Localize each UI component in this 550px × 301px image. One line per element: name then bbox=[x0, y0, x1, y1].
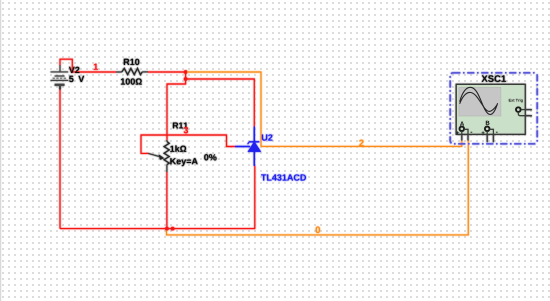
junction dot rail right bbox=[171, 227, 175, 231]
wire pot bottom to rail bbox=[166, 172, 168, 229]
wire V2 minus down to rail bbox=[59, 89, 61, 229]
battery value label 5 V bbox=[69, 76, 84, 82]
resistor R10 bbox=[116, 68, 148, 74]
shunt regulator U2 TL431 symbol bbox=[235, 127, 259, 167]
battery label V2 bbox=[69, 67, 80, 73]
oscilloscope body bbox=[456, 84, 525, 134]
oscilloscope terminal A bbox=[460, 127, 465, 132]
oscilloscope sine trace 1 bbox=[460, 87, 498, 114]
junction dot rail left bbox=[165, 227, 169, 231]
net label 0 bbox=[316, 226, 321, 233]
oscilloscope channel B label bbox=[486, 121, 490, 125]
oscilloscope A plus pin bbox=[461, 131, 463, 140]
wire pot wiper to U2 ref bbox=[141, 135, 236, 153]
potentiometer value label 1kohm bbox=[170, 145, 186, 152]
oscilloscope B plus mark bbox=[482, 131, 485, 134]
oscilloscope B plus pin bbox=[486, 131, 488, 142]
oscilloscope terminal B bbox=[485, 127, 490, 132]
oscilloscope XSC1 dashed selection box bbox=[450, 73, 537, 144]
wire R10 right to junction bbox=[148, 71, 186, 73]
potentiometer percent label bbox=[204, 154, 216, 160]
potentiometer label R11 bbox=[173, 122, 188, 128]
net label 3 bbox=[184, 127, 188, 133]
wire net2 orange junction to U2 right drop bbox=[187, 72, 261, 146]
oscilloscope label XSC1 bbox=[481, 75, 505, 82]
wire junction to U2 cathode bbox=[186, 79, 255, 127]
resistor value label 100ohm bbox=[121, 78, 142, 84]
oscilloscope Ext Trig pin 1 bbox=[521, 109, 532, 111]
wire net2 orange to scope A plus bbox=[261, 140, 462, 146]
oscilloscope Ext Trig label bbox=[509, 99, 523, 103]
oscilloscope A minus pin bbox=[464, 129, 468, 140]
U2 value label TL431ACD bbox=[261, 174, 306, 180]
potentiometer key label bbox=[170, 158, 197, 166]
wire net1 V2 plus loop to R10 left bbox=[60, 59, 116, 72]
oscilloscope sine trace 2 bbox=[460, 92, 498, 111]
resistor label R10 bbox=[124, 59, 140, 65]
junction dot node3 lower bbox=[184, 77, 188, 81]
oscilloscope screen bbox=[459, 87, 501, 116]
oscilloscope Ext Trig terminal bbox=[516, 107, 521, 112]
oscilloscope channel A label bbox=[460, 121, 464, 125]
net label 2 bbox=[359, 140, 364, 147]
U2 ref label bbox=[262, 134, 273, 140]
wire bottom rail to U2 anode riser bbox=[60, 166, 255, 229]
battery V2 bbox=[51, 65, 69, 90]
oscilloscope A plus mark bbox=[456, 131, 459, 134]
wire junction down to pot top bbox=[167, 72, 186, 141]
oscilloscope A minus mark bbox=[470, 131, 472, 134]
oscilloscope B minus mark bbox=[496, 131, 498, 134]
net label 1 bbox=[94, 64, 98, 70]
oscilloscope B minus pin bbox=[490, 129, 494, 142]
oscilloscope Ext Trig pin 2 hook bbox=[518, 112, 532, 115]
potentiometer R11 bbox=[148, 140, 169, 172]
U2 triangle bbox=[248, 142, 260, 151]
junction dot node3 upper bbox=[184, 70, 188, 74]
potentiometer wiper arrow head bbox=[159, 154, 165, 160]
wire net0 orange rail to scope A minus bbox=[167, 140, 469, 235]
